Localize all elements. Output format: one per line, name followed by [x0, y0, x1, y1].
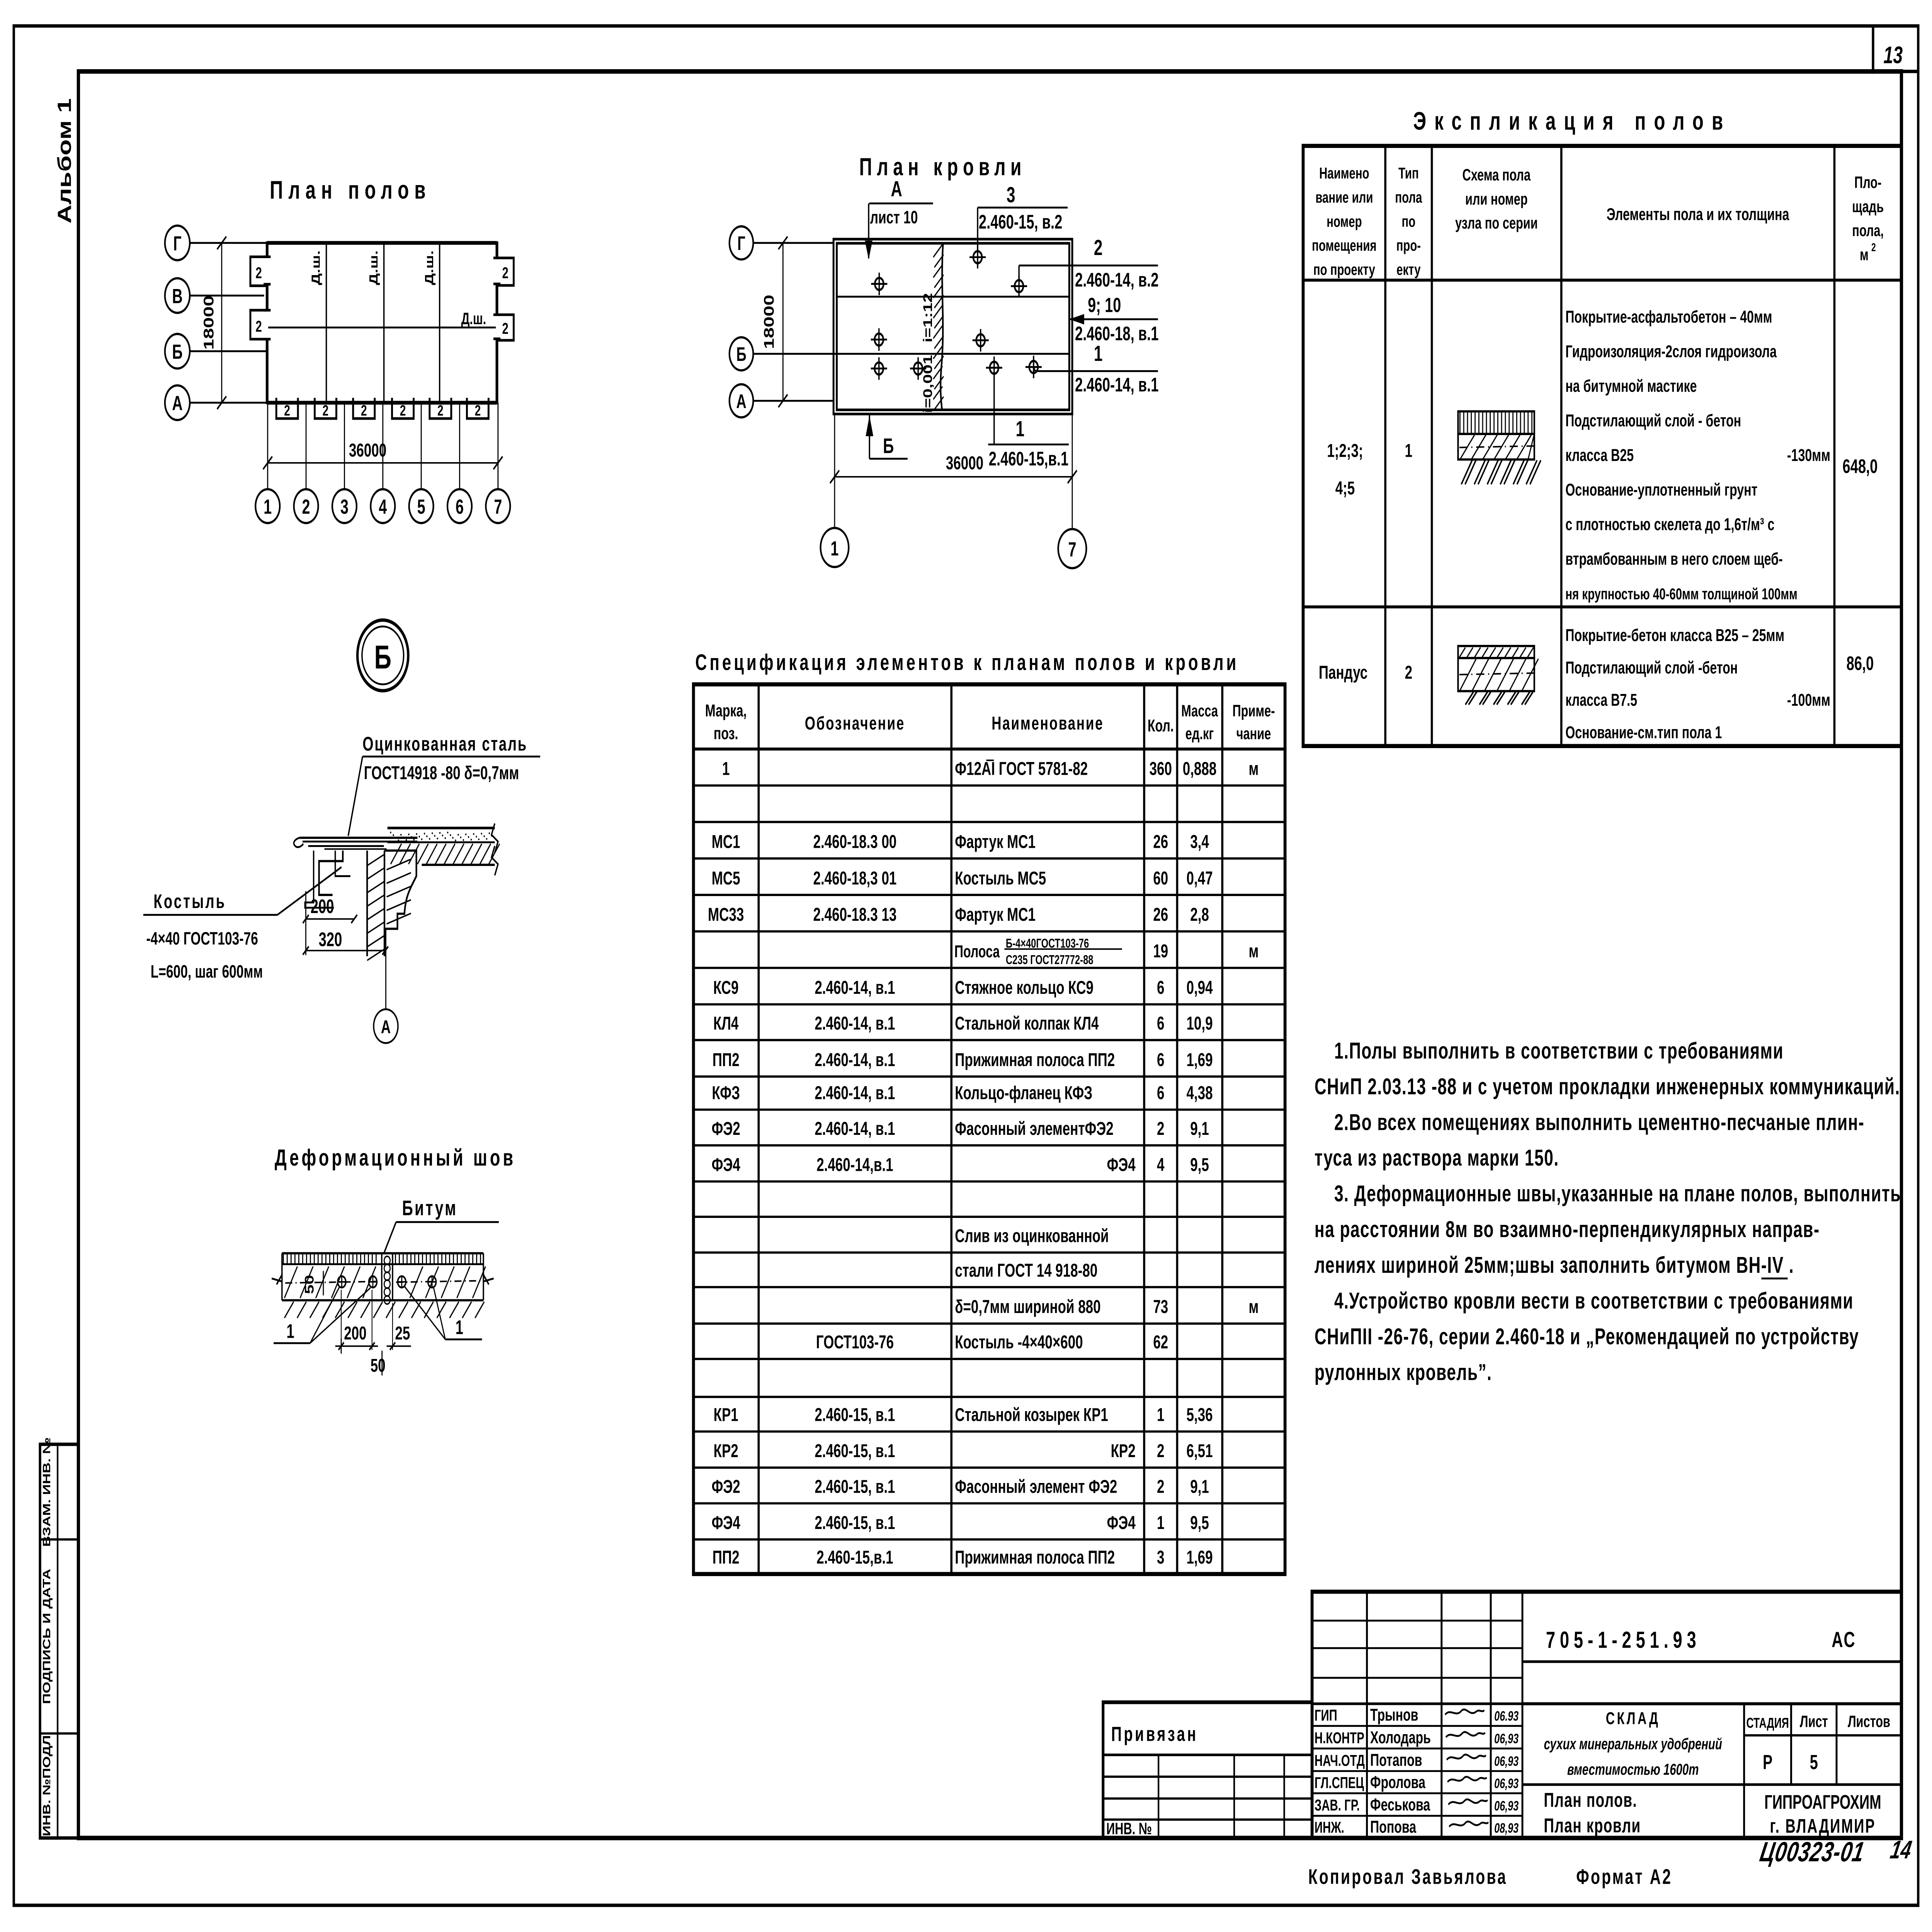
svg-text:Фролова: Фролова: [1370, 1773, 1425, 1792]
svg-text:Элементы пола и их толщина: Элементы пола и их толщина: [1607, 205, 1789, 224]
svg-text:5,36: 5,36: [1186, 1404, 1213, 1425]
node circle B outer: [357, 620, 408, 691]
svg-text:Прижимная полоса ПП2: Прижимная полоса ПП2: [955, 1049, 1115, 1070]
svg-text:КЛ4: КЛ4: [713, 1013, 739, 1034]
floor schema type 1: [1458, 412, 1534, 434]
svg-text:ВЗАМ. ИНВ. №: ВЗАМ. ИНВ. №: [41, 1437, 53, 1547]
underline VN-IV: [1761, 1277, 1787, 1279]
svg-text:25: 25: [395, 1323, 410, 1344]
svg-text:пола: пола: [1395, 189, 1422, 206]
svg-text:с плотностью скелета до 1,6т/м: с плотностью скелета до 1,6т/м³ с: [1565, 515, 1774, 534]
svg-text:Слив из оцинкованной: Слив из оцинкованной: [955, 1225, 1109, 1246]
stamp right section: [1522, 1660, 1901, 1663]
svg-text:1: 1: [264, 495, 272, 518]
svg-text:рулонных кровель”.: рулонных кровель”.: [1315, 1359, 1492, 1385]
svg-text:номер: номер: [1327, 213, 1362, 230]
roof grid line G: [753, 242, 833, 244]
svg-text:А: А: [172, 392, 182, 415]
svg-text:1: 1: [456, 1317, 463, 1338]
svg-text:ИНЖ.: ИНЖ.: [1315, 1818, 1344, 1836]
svg-text:м: м: [1249, 1296, 1259, 1317]
svg-text:7: 7: [1068, 538, 1076, 561]
svg-text:ЗАВ. ГР.: ЗАВ. ГР.: [1315, 1796, 1360, 1814]
overbar F12A-I: [986, 760, 994, 761]
svg-text:2: 2: [502, 320, 509, 337]
svg-text:КФЗ: КФЗ: [712, 1082, 740, 1103]
svg-text:или номер: или номер: [1465, 189, 1528, 208]
svg-text:2: 2: [400, 402, 406, 419]
svg-text:50: 50: [303, 1275, 316, 1294]
roof bubble 7: [1058, 529, 1087, 568]
column bubble 4: [371, 489, 395, 523]
svg-text:36000: 36000: [946, 452, 983, 473]
svg-text:6,51: 6,51: [1186, 1440, 1213, 1461]
main stamp: [1312, 1592, 1901, 1838]
svg-text:i=0,001: i=0,001: [921, 355, 935, 413]
svg-text:06,93: 06,93: [1494, 1776, 1519, 1791]
svg-text:ФЭ4: ФЭ4: [1107, 1154, 1136, 1175]
svg-text:Холодарь: Холодарь: [1370, 1728, 1431, 1747]
svg-text:6: 6: [456, 495, 464, 518]
svg-text:Подстилающий слой - бетон: Подстилающий слой - бетон: [1565, 412, 1741, 430]
svg-text:Наименование: Наименование: [992, 713, 1104, 733]
svg-text:1: 1: [1405, 440, 1412, 461]
svg-text:щадь: щадь: [1852, 197, 1884, 216]
svg-text:86,0: 86,0: [1846, 653, 1874, 674]
svg-text:2.460-15, в.1: 2.460-15, в.1: [815, 1476, 895, 1497]
svg-text:i=1:12: i=1:12: [921, 293, 935, 342]
svg-text:1: 1: [1094, 342, 1103, 366]
svg-text:Копировал Завьялова: Копировал Завьялова: [1308, 1865, 1507, 1889]
svg-text:5: 5: [417, 495, 425, 518]
svg-text:9,5: 9,5: [1190, 1154, 1209, 1175]
svg-text:А: А: [891, 177, 902, 201]
svg-text:Д.ш.: Д.ш.: [309, 250, 323, 285]
svg-text:7: 7: [494, 495, 502, 518]
svg-text:5: 5: [1810, 1751, 1818, 1774]
column bubble 6: [447, 489, 472, 523]
svg-text:пола,: пола,: [1852, 221, 1884, 240]
svg-text:Ц00323-01: Ц00323-01: [1758, 1837, 1867, 1867]
svg-text:МС1: МС1: [712, 831, 740, 852]
roof drains: [871, 273, 887, 295]
column lines to bubbles: [267, 403, 269, 489]
svg-text:3: 3: [1007, 183, 1015, 207]
svg-text:2.460-18.3 00: 2.460-18.3 00: [813, 831, 897, 852]
svg-text:2: 2: [255, 264, 262, 282]
svg-text:ПП2: ПП2: [713, 1547, 740, 1568]
svg-text:План полов: План полов: [270, 176, 431, 204]
svg-text:Приме-: Приме-: [1232, 701, 1275, 720]
svg-text:План кровли: План кровли: [859, 153, 1026, 180]
svg-text:705-1-251.93: 705-1-251.93: [1546, 1627, 1701, 1653]
svg-text:2: 2: [323, 402, 329, 419]
svg-text:сухих минеральных удобрений: сухих минеральных удобрений: [1544, 1735, 1722, 1753]
svg-text:В: В: [172, 285, 182, 308]
column bubble 3: [332, 489, 357, 523]
svg-text:Кол.: Кол.: [1148, 716, 1174, 735]
svg-text:Фартук МС1: Фартук МС1: [955, 904, 1036, 925]
svg-text:класса В25: класса В25: [1565, 446, 1634, 465]
svg-text:узла по серии: узла по серии: [1455, 214, 1538, 232]
svg-text:62: 62: [1153, 1332, 1168, 1352]
grid circle Б: [165, 334, 190, 369]
svg-text:3. Деформационные швы,указанны: 3. Деформационные швы,указанные на плане…: [1334, 1180, 1901, 1206]
svg-text:2.460-15, в.1: 2.460-15, в.1: [815, 1440, 895, 1461]
svg-text:на расстоянии 8м во взаимно-пе: на расстоянии 8м во взаимно-перпендикуля…: [1315, 1216, 1820, 1242]
svg-text:ФЭ4: ФЭ4: [712, 1154, 741, 1175]
grid line B: [190, 350, 267, 352]
svg-text:Потапов: Потапов: [1370, 1751, 1422, 1770]
svg-text:2: 2: [475, 402, 481, 419]
svg-text:Кольцо-фланец КФЗ: Кольцо-фланец КФЗ: [955, 1082, 1092, 1103]
svg-text:06,93: 06,93: [1494, 1731, 1519, 1746]
svg-text:06,93: 06,93: [1494, 1799, 1519, 1814]
dowel bars: [338, 1276, 346, 1287]
svg-text:ГЛ.СПЕЦ: ГЛ.СПЕЦ: [1315, 1774, 1364, 1792]
svg-text:4: 4: [379, 495, 387, 518]
left margin boxes: [40, 1444, 78, 1838]
svg-text:08,93: 08,93: [1494, 1821, 1519, 1836]
svg-text:0,94: 0,94: [1186, 977, 1213, 998]
svg-text:73: 73: [1153, 1296, 1168, 1317]
svg-text:С235 ГОСТ27772-88: С235 ГОСТ27772-88: [1006, 953, 1094, 967]
svg-text:2.460-15,в.1: 2.460-15,в.1: [816, 1547, 893, 1568]
svg-text:лениях шириной 25мм;швы заполн: лениях шириной 25мм;швы заполнить битумо…: [1315, 1252, 1794, 1278]
roof slab section: [388, 827, 495, 829]
svg-text:м: м: [1249, 758, 1259, 779]
svg-text:Экспликация полов: Экспликация полов: [1413, 107, 1731, 135]
dim 36000 floor plan: [268, 462, 498, 464]
grid line A: [190, 402, 267, 404]
svg-text:Трынов: Трынов: [1370, 1706, 1418, 1725]
svg-text:Оцинкованная сталь: Оцинкованная сталь: [362, 733, 527, 755]
svg-text:Н.КОНТР: Н.КОНТР: [1315, 1729, 1364, 1747]
svg-text:Полоса: Полоса: [954, 942, 1000, 961]
svg-text:2: 2: [1157, 1476, 1164, 1497]
svg-text:Попова: Попова: [1370, 1818, 1416, 1837]
svg-text:Альбом 1: Альбом 1: [54, 98, 75, 223]
roof ridge line: [837, 353, 1070, 355]
svg-text:Деформационный шов: Деформационный шов: [275, 1145, 516, 1171]
grid line G: [190, 242, 267, 244]
svg-text:2.460-18,3 01: 2.460-18,3 01: [813, 867, 897, 888]
svg-text:Б: Б: [883, 434, 894, 458]
svg-text:2.460-14, в.1: 2.460-14, в.1: [815, 1118, 895, 1139]
console bracket: [384, 850, 417, 929]
dim 36000 roof: [835, 476, 1072, 478]
svg-text:Костыль: Костыль: [153, 891, 226, 912]
svg-text:2.460-18, в.1: 2.460-18, в.1: [1075, 323, 1159, 345]
svg-text:Р: Р: [1763, 1751, 1772, 1774]
svg-text:ИНВ. №ПОДЛ: ИНВ. №ПОДЛ: [41, 1735, 53, 1836]
svg-text:19: 19: [1153, 940, 1168, 961]
svg-text:Тип: Тип: [1398, 164, 1419, 182]
svg-text:Схема пола: Схема пола: [1462, 165, 1531, 184]
roof deformation joint hatched: [940, 244, 943, 409]
svg-text:36000: 36000: [349, 440, 386, 461]
svg-text:9; 10: 9; 10: [1088, 294, 1121, 317]
slab with joint: [282, 1252, 483, 1254]
door niche boxes right: [497, 258, 514, 286]
svg-text:А: А: [381, 1017, 391, 1037]
svg-text:2.460-15, в.1: 2.460-15, в.1: [815, 1404, 895, 1425]
svg-text:Стяжное кольцо КС9: Стяжное кольцо КС9: [955, 977, 1094, 998]
svg-text:СНиП 2.03.13 -88 и с учетом пр: СНиП 2.03.13 -88 и с учетом прокладки ин…: [1315, 1073, 1900, 1099]
svg-text:класса В7.5: класса В7.5: [1565, 691, 1637, 710]
svg-text:13: 13: [1883, 42, 1903, 68]
svg-text:-100мм: -100мм: [1787, 691, 1830, 710]
svg-text:Спецификация элементов к плана: Спецификация элементов к планам полов и …: [695, 650, 1239, 675]
svg-text:ГОСТ103-76: ГОСТ103-76: [816, 1332, 894, 1352]
svg-text:ФЭ2: ФЭ2: [712, 1476, 740, 1497]
column bubble 5: [409, 489, 434, 523]
svg-text:-130мм: -130мм: [1787, 446, 1830, 465]
building outline floor plan: [267, 241, 497, 245]
svg-text:2.460-14, в.1: 2.460-14, в.1: [815, 1082, 895, 1103]
svg-text:Масса: Масса: [1181, 701, 1218, 720]
ground hatch: [284, 1302, 294, 1318]
svg-text:2: 2: [502, 264, 509, 282]
section mark A: [868, 203, 870, 258]
svg-text:Основание-уплотненный грунт: Основание-уплотненный грунт: [1565, 481, 1757, 500]
svg-text:помещения: помещения: [1312, 236, 1376, 254]
section mark B: [869, 414, 871, 459]
svg-text:2: 2: [302, 495, 310, 518]
svg-text:А: А: [736, 391, 746, 412]
svg-text:2: 2: [437, 402, 444, 419]
svg-text:L=600, шаг 600мм: L=600, шаг 600мм: [151, 961, 263, 982]
svg-text:вание или: вание или: [1315, 189, 1373, 206]
svg-text:0,888: 0,888: [1183, 758, 1217, 779]
svg-text:9,5: 9,5: [1190, 1512, 1209, 1533]
column bubble 7: [486, 489, 510, 523]
svg-text:Подстилающий слой -бетон: Подстилающий слой -бетон: [1565, 658, 1738, 677]
svg-text:3: 3: [1157, 1547, 1164, 1568]
svg-text:вместимостью 1600т: вместимостью 1600т: [1567, 1760, 1699, 1778]
svg-text:м: м: [1249, 940, 1259, 961]
svg-text:δ=0,7мм шириной 880: δ=0,7мм шириной 880: [955, 1296, 1100, 1317]
svg-text:стали ГОСТ 14 918-80: стали ГОСТ 14 918-80: [955, 1260, 1097, 1281]
svg-text:ИНВ. №: ИНВ. №: [1106, 1819, 1152, 1838]
sheet number box: [1871, 26, 1875, 74]
roof valley line: [837, 296, 1070, 298]
svg-text:СТАДИЯ: СТАДИЯ: [1746, 1715, 1789, 1731]
svg-text:2: 2: [1157, 1118, 1164, 1139]
roof grid circle Г: [730, 226, 753, 260]
svg-text:СКЛАД: СКЛАД: [1606, 1709, 1660, 1728]
svg-text:6: 6: [1157, 1049, 1164, 1070]
svg-text:320: 320: [319, 929, 342, 951]
svg-text:1: 1: [1157, 1404, 1164, 1425]
svg-text:2.460-18.3 13: 2.460-18.3 13: [813, 904, 897, 925]
svg-text:2.460-15, в.2: 2.460-15, в.2: [979, 211, 1063, 233]
svg-text:Ф12АІ ГОСТ 5781-82: Ф12АІ ГОСТ 5781-82: [955, 758, 1088, 779]
svg-text:втрамбованным в него слоем щеб: втрамбованным в него слоем щеб-: [1565, 550, 1782, 569]
svg-text:1.Полы выполнить в соответстви: 1.Полы выполнить в соответствии с требов…: [1334, 1037, 1784, 1063]
grid circle Г: [165, 226, 190, 260]
svg-text:Пло-: Пло-: [1854, 173, 1881, 192]
svg-text:4.Устройство кровли вести в со: 4.Устройство кровли вести в соответствии…: [1334, 1288, 1854, 1314]
svg-text:Гидроизоляция-2слоя гидроизола: Гидроизоляция-2слоя гидроизола: [1565, 342, 1777, 361]
svg-text:2.460-14, в.2: 2.460-14, в.2: [1075, 269, 1159, 291]
roof bubble 1: [821, 528, 849, 567]
svg-text:Лист: Лист: [1800, 1712, 1828, 1731]
svg-text:06.93: 06.93: [1494, 1709, 1519, 1724]
svg-text:200: 200: [344, 1323, 366, 1344]
svg-text:26: 26: [1153, 831, 1168, 852]
svg-text:ГИПРОАГРОХИМ: ГИПРОАГРОХИМ: [1764, 1791, 1881, 1813]
bitumen rope joint: [381, 1253, 383, 1300]
svg-text:2: 2: [255, 318, 262, 335]
svg-text:648,0: 648,0: [1842, 456, 1878, 477]
svg-text:50: 50: [371, 1355, 386, 1376]
svg-text:1: 1: [1016, 417, 1025, 441]
svg-text:ФЭ2: ФЭ2: [712, 1118, 740, 1139]
svg-text:2.460-14, в.1: 2.460-14, в.1: [815, 977, 895, 998]
flashing lines: [299, 837, 417, 839]
svg-text:Фасонный элемент ФЭ2: Фасонный элемент ФЭ2: [955, 1476, 1117, 1497]
svg-text:1,69: 1,69: [1186, 1049, 1213, 1070]
svg-text:ГИП: ГИП: [1315, 1706, 1337, 1724]
svg-text:лист 10: лист 10: [870, 207, 918, 228]
svg-text:Фартук МС1: Фартук МС1: [955, 831, 1036, 852]
svg-text:2.460-14,в.1: 2.460-14,в.1: [816, 1154, 893, 1175]
svg-text:200: 200: [311, 896, 334, 917]
svg-text:по: по: [1402, 213, 1416, 230]
svg-text:ФЭ4: ФЭ4: [712, 1512, 741, 1533]
floor schema type 2: [1458, 646, 1534, 658]
svg-text:Б: Б: [374, 638, 391, 675]
svg-text:Стальной колпак КЛ4: Стальной колпак КЛ4: [955, 1013, 1099, 1034]
svg-text:1: 1: [722, 758, 730, 779]
svg-text:2.460-15, в.1: 2.460-15, в.1: [815, 1512, 895, 1533]
svg-text:ед.кг: ед.кг: [1185, 724, 1214, 743]
svg-text:План кровли: План кровли: [1544, 1814, 1641, 1837]
svg-text:1: 1: [830, 537, 838, 560]
svg-text:2.460-14, в.1: 2.460-14, в.1: [1075, 374, 1159, 396]
svg-text:МС5: МС5: [712, 867, 740, 888]
svg-text:2: 2: [1405, 662, 1412, 683]
svg-text:360: 360: [1150, 758, 1172, 779]
svg-text:60: 60: [1153, 867, 1168, 888]
svg-text:Привязан: Привязан: [1111, 1723, 1198, 1746]
svg-text:Покрытие-асфальтобетон – 40мм: Покрытие-асфальтобетон – 40мм: [1565, 308, 1772, 327]
svg-text:Стальной козырек КР1: Стальной козырек КР1: [955, 1404, 1108, 1425]
svg-text:Покрытие-бетон класса В25 – 25: Покрытие-бетон класса В25 – 25мм: [1565, 626, 1784, 645]
svg-text:КР2: КР2: [1111, 1440, 1136, 1461]
column bubble 2: [294, 489, 318, 523]
svg-text:-4×40 ГОСТ103-76: -4×40 ГОСТ103-76: [146, 928, 258, 949]
svg-text:10,9: 10,9: [1186, 1013, 1213, 1034]
svg-text:Пандус: Пандус: [1319, 662, 1367, 683]
svg-text:Листов: Листов: [1848, 1712, 1890, 1731]
svg-text:4,38: 4,38: [1186, 1082, 1213, 1103]
svg-text:0,47: 0,47: [1186, 867, 1213, 888]
svg-text:9,1: 9,1: [1190, 1476, 1209, 1497]
svg-text:Формат А2: Формат А2: [1576, 1865, 1672, 1889]
door niche boxes left: [250, 257, 267, 286]
svg-text:Д.ш.: Д.ш.: [422, 250, 436, 285]
svg-text:2: 2: [284, 402, 290, 419]
svg-text:екту: екту: [1396, 261, 1421, 279]
deformation joints floor plan: [325, 245, 327, 401]
svg-text:Костыль -4×40×600: Костыль -4×40×600: [955, 1332, 1083, 1352]
svg-text:3,4: 3,4: [1190, 831, 1209, 852]
svg-text:6: 6: [1157, 1082, 1164, 1103]
svg-text:Костыль МС5: Костыль МС5: [955, 867, 1046, 888]
svg-text:МС33: МС33: [708, 904, 744, 925]
svg-text:ГОСТ14918 -80 δ=0,7мм: ГОСТ14918 -80 δ=0,7мм: [364, 762, 519, 783]
svg-text:1: 1: [286, 1321, 294, 1342]
parapet wall hatched: [366, 850, 368, 956]
node circle B inner: [362, 626, 404, 684]
svg-text:ПП2: ПП2: [713, 1049, 740, 1070]
svg-text:КР2: КР2: [714, 1440, 738, 1461]
svg-text:Наимено: Наимено: [1319, 164, 1369, 182]
svg-text:9,1: 9,1: [1190, 1118, 1209, 1139]
svg-text:18000: 18000: [201, 296, 217, 350]
roof grid line A: [753, 400, 833, 402]
svg-text:поз.: поз.: [714, 724, 738, 743]
svg-text:Д.ш.: Д.ш.: [367, 250, 380, 285]
svg-text:м: м: [1860, 245, 1869, 264]
dim 18000 roof: [782, 243, 784, 401]
svg-text:2: 2: [1157, 1440, 1164, 1461]
svg-text:План полов.: План полов.: [1544, 1789, 1637, 1811]
svg-text:Б: Б: [172, 340, 182, 363]
svg-text:2.460-14, в.1: 2.460-14, в.1: [815, 1049, 895, 1070]
svg-text:туса из раствора марки 150.: туса из раствора марки 150.: [1315, 1145, 1559, 1171]
svg-text:ня крупностью 40-60мм толщиной: ня крупностью 40-60мм толщиной 100мм: [1565, 585, 1798, 603]
svg-text:4: 4: [1157, 1154, 1165, 1175]
svg-text:4;5: 4;5: [1335, 478, 1355, 498]
svg-text:ФЭ4: ФЭ4: [1107, 1512, 1136, 1533]
dims 200/320: [305, 891, 306, 955]
svg-text:Д.ш.: Д.ш.: [461, 309, 486, 328]
dim 18000 floor plan: [221, 243, 223, 403]
svg-text:СНиПІІ -26-76, серии 2.460-18: СНиПІІ -26-76, серии 2.460-18 и „Рекомен…: [1315, 1323, 1859, 1349]
svg-text:1;2;3;: 1;2;3;: [1327, 440, 1363, 461]
svg-text:06,93: 06,93: [1494, 1754, 1519, 1769]
column bubble 1: [255, 489, 280, 523]
svg-text:по проекту: по проекту: [1313, 261, 1375, 279]
node circle A: [374, 1009, 398, 1043]
svg-text:2.Во всех помещениях выполнить: 2.Во всех помещениях выполнить цементно-…: [1334, 1109, 1864, 1135]
privyazan block: [1103, 1702, 1312, 1838]
svg-text:на битумной мастике: на битумной мастике: [1565, 377, 1697, 396]
svg-text:2: 2: [1871, 241, 1876, 254]
svg-text:18000: 18000: [761, 295, 777, 349]
svg-text:2,8: 2,8: [1190, 904, 1209, 925]
svg-text:Основание-см.тип пола 1: Основание-см.тип пола 1: [1565, 723, 1722, 742]
roof grid circle Б: [730, 337, 753, 371]
svg-text:1: 1: [1157, 1512, 1164, 1533]
svg-text:АС: АС: [1832, 1628, 1856, 1652]
grid circle А: [165, 385, 190, 420]
grid circle В: [165, 278, 190, 313]
svg-text:про-: про-: [1396, 236, 1421, 254]
svg-text:2.460-15,в.1: 2.460-15,в.1: [989, 448, 1068, 470]
svg-text:Б: Б: [736, 344, 746, 365]
node leader A: [385, 929, 386, 1009]
svg-text:6: 6: [1157, 1013, 1164, 1034]
svg-text:6: 6: [1157, 977, 1164, 998]
svg-text:НАЧ.ОТД: НАЧ.ОТД: [1315, 1752, 1365, 1769]
svg-text:2.460-14, в.1: 2.460-14, в.1: [815, 1013, 895, 1034]
svg-text:1,69: 1,69: [1186, 1547, 1213, 1568]
svg-text:2: 2: [361, 402, 367, 419]
